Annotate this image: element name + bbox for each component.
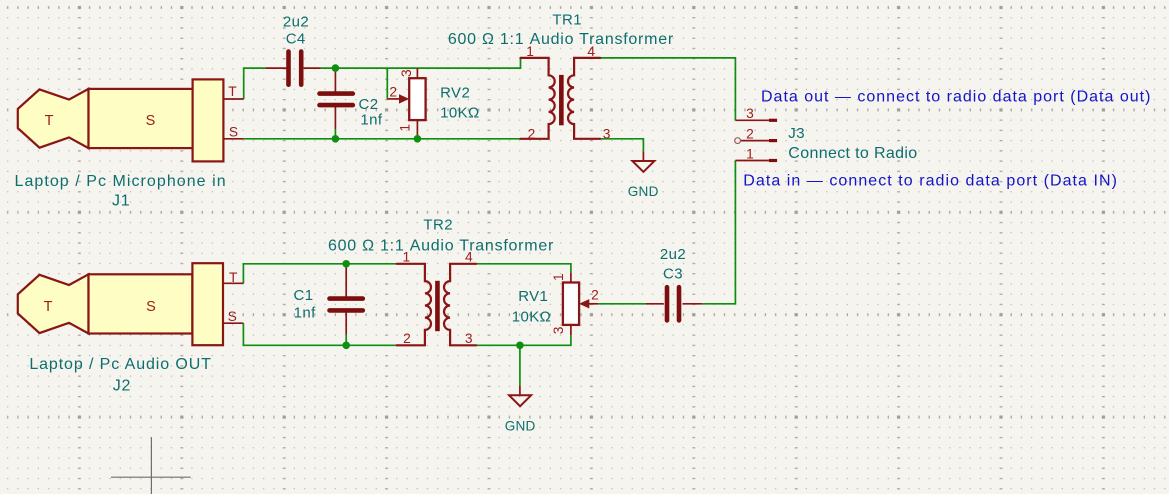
svg-text:S: S xyxy=(146,113,156,129)
svg-text:10KΩ: 10KΩ xyxy=(512,308,552,325)
svg-text:Laptop / Pc Audio OUT: Laptop / Pc Audio OUT xyxy=(29,356,212,373)
svg-text:2u2: 2u2 xyxy=(283,13,309,30)
svg-text:C2: C2 xyxy=(359,96,379,113)
svg-text:3: 3 xyxy=(465,331,473,346)
svg-text:2u2: 2u2 xyxy=(660,246,686,263)
svg-text:C3: C3 xyxy=(663,265,683,282)
svg-text:3: 3 xyxy=(399,69,414,77)
svg-text:2: 2 xyxy=(746,126,754,141)
svg-text:1: 1 xyxy=(746,146,754,161)
svg-text:C4: C4 xyxy=(286,31,306,48)
svg-text:T: T xyxy=(228,84,237,99)
svg-text:GND: GND xyxy=(505,419,536,434)
svg-text:S: S xyxy=(228,309,237,324)
svg-text:J3: J3 xyxy=(788,125,805,142)
svg-text:J1: J1 xyxy=(112,193,130,210)
svg-text:RV2: RV2 xyxy=(440,84,470,101)
svg-text:J2: J2 xyxy=(113,378,131,395)
svg-text:1: 1 xyxy=(526,44,534,59)
svg-text:2: 2 xyxy=(528,126,536,141)
svg-text:Data out — connect to radio da: Data out — connect to radio data port (D… xyxy=(761,88,1151,105)
svg-text:S: S xyxy=(229,125,238,140)
svg-text:T: T xyxy=(45,113,54,129)
svg-text:S: S xyxy=(146,299,156,315)
svg-text:T: T xyxy=(44,299,53,315)
svg-text:C1: C1 xyxy=(294,287,314,304)
svg-text:1nf: 1nf xyxy=(294,304,316,321)
svg-text:600 Ω 1:1 Audio Transformer: 600 Ω 1:1 Audio Transformer xyxy=(328,238,554,255)
svg-text:Data in — connect to radio dat: Data in — connect to radio data port (Da… xyxy=(743,172,1118,189)
svg-text:1: 1 xyxy=(403,250,411,265)
svg-text:1: 1 xyxy=(551,273,566,281)
svg-text:1nf: 1nf xyxy=(360,112,382,129)
svg-text:2: 2 xyxy=(403,331,411,346)
svg-text:Laptop / Pc Microphone in: Laptop / Pc Microphone in xyxy=(15,173,227,190)
svg-text:Connect to Radio: Connect to Radio xyxy=(788,145,917,162)
svg-text:T: T xyxy=(229,270,238,285)
svg-text:TR1: TR1 xyxy=(552,12,582,29)
svg-text:10KΩ: 10KΩ xyxy=(440,104,480,121)
svg-text:4: 4 xyxy=(465,250,473,265)
svg-text:4: 4 xyxy=(587,44,595,59)
svg-text:2: 2 xyxy=(389,84,397,99)
svg-text:TR2: TR2 xyxy=(423,217,453,234)
svg-text:3: 3 xyxy=(746,106,754,121)
svg-text:3: 3 xyxy=(603,126,611,141)
svg-text:GND: GND xyxy=(628,184,659,199)
svg-text:2: 2 xyxy=(591,288,599,303)
svg-text:3: 3 xyxy=(551,326,566,334)
svg-text:RV1: RV1 xyxy=(518,288,548,305)
svg-text:600 Ω 1:1 Audio Transformer: 600 Ω 1:1 Audio Transformer xyxy=(448,31,674,48)
svg-text:1: 1 xyxy=(398,124,413,132)
